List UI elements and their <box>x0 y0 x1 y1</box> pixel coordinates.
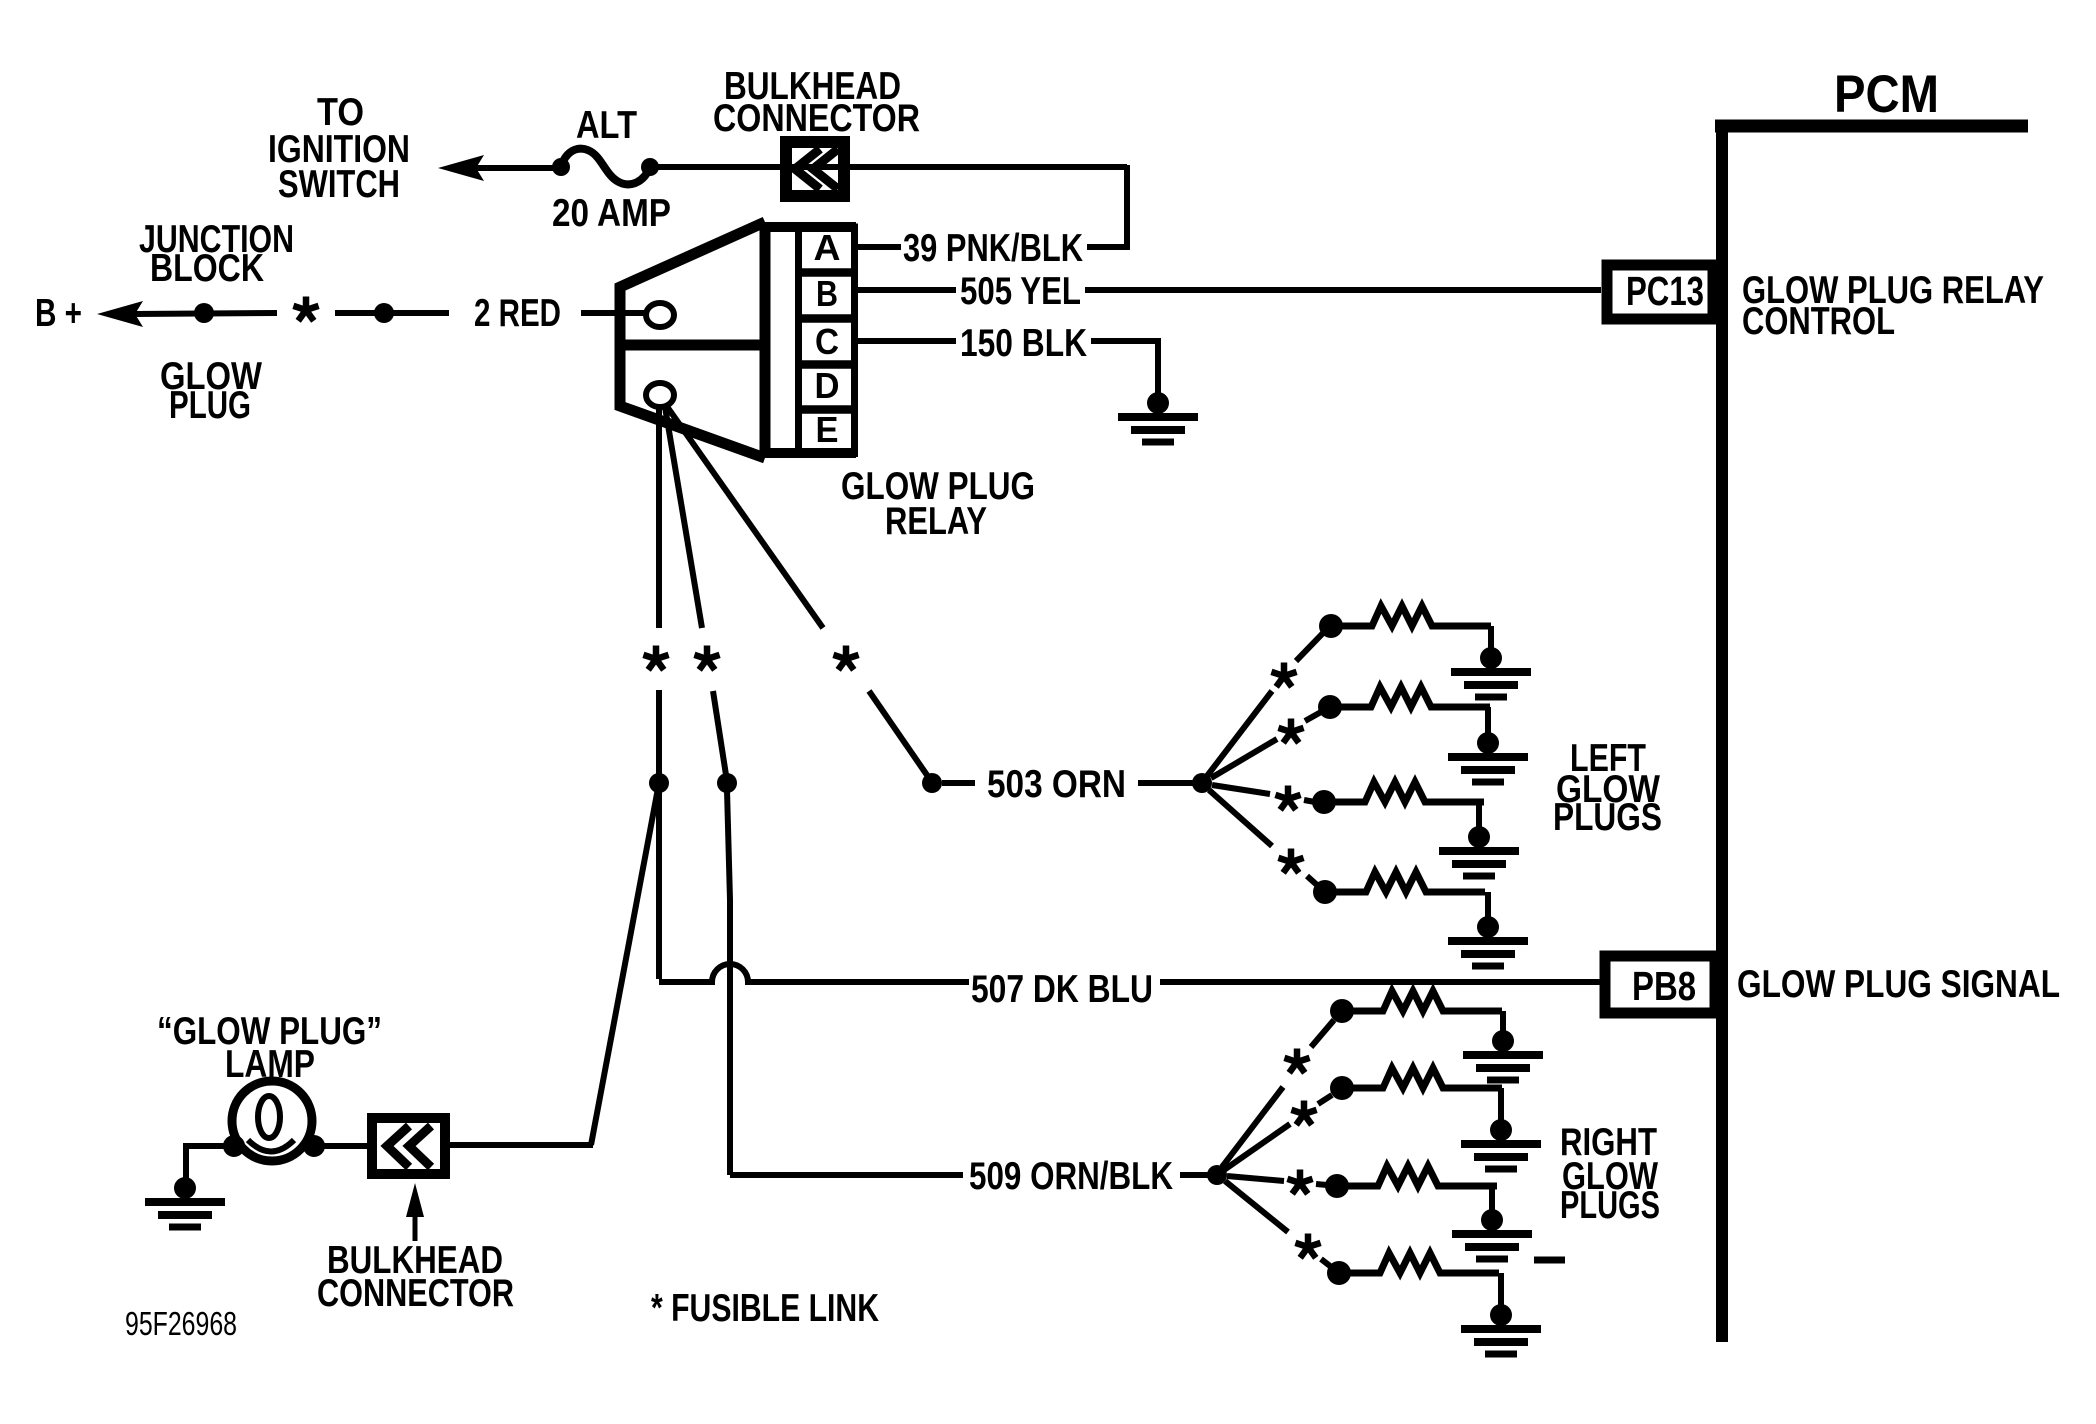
ground right plug 2 <box>1461 1119 1541 1169</box>
ground (lamp) <box>145 1177 225 1227</box>
wire fuse to bulkhead connector <box>650 164 813 170</box>
svg-text:D: D <box>815 365 840 406</box>
svg-text:PLUGS: PLUGS <box>1553 796 1662 839</box>
relay pin housing <box>798 227 855 454</box>
svg-text:509 ORN/BLK: 509 ORN/BLK <box>969 1155 1173 1198</box>
wire to right plug 3 dot <box>1316 1184 1327 1185</box>
right glow plug 1 <box>1330 991 1502 1023</box>
wire 503 ORN left segment <box>942 780 975 786</box>
label GLOW PLUG RELAY CONTROL <box>1742 269 2044 343</box>
fusible link asterisk 3 <box>833 646 858 670</box>
wire to 2 RED <box>335 310 449 316</box>
wire 505 YEL to PC13 <box>1085 287 1601 293</box>
svg-text:150 BLK: 150 BLK <box>960 322 1087 365</box>
junction dot on B+ wire <box>194 303 214 323</box>
wire arrow to fuse <box>474 165 562 171</box>
wire bulkhead connector to corner <box>813 164 1127 170</box>
fusible link asterisk right 3 <box>1287 1170 1312 1194</box>
wire hub to right plug 4 <box>1225 1181 1288 1232</box>
wire left plug 3 to ground <box>1476 802 1482 829</box>
ground right plug 4 <box>1461 1304 1541 1354</box>
svg-text:ALT: ALT <box>576 104 637 147</box>
svg-text:A: A <box>814 227 841 268</box>
terminal PC13 <box>1607 265 1713 319</box>
glow plug lamp <box>223 1081 325 1161</box>
wire 509 label to hub <box>1180 1172 1209 1178</box>
wire asterisk 2 to junction <box>713 691 726 775</box>
wire junction 1 diagonal to lamp circuit <box>591 783 659 1145</box>
relay terminal lower oval <box>646 383 674 407</box>
svg-text:C: C <box>815 321 839 362</box>
left glow plug 3 <box>1312 782 1484 814</box>
svg-text:507 DK BLU: 507 DK BLU <box>971 968 1153 1011</box>
wire left plug 2 to ground <box>1485 707 1491 735</box>
svg-text:PLUGS: PLUGS <box>1560 1184 1660 1227</box>
wire hub to left plug 3 <box>1212 785 1270 794</box>
left glow plug 4 <box>1313 872 1485 904</box>
stray dash right plug 3 <box>1534 1257 1565 1264</box>
ground left plug 4 <box>1448 916 1528 966</box>
wire lamp to bulkhead connector <box>314 1143 372 1149</box>
left glow plug 1 <box>1319 606 1491 638</box>
wire asterisk 3 to junction <box>869 691 929 778</box>
fusible link asterisk left 1 <box>1271 663 1296 687</box>
label BULKHEAD CONNECTOR (top) <box>713 65 920 140</box>
wire 507 DK BLU to PB8 <box>1160 979 1605 985</box>
svg-text:2 RED: 2 RED <box>474 292 561 335</box>
wire to left plug 1 dot <box>1296 632 1324 661</box>
fuse ALT 20 AMP <box>552 149 659 185</box>
wire B+ arrow segment <box>133 313 277 314</box>
fusible link asterisk right 2 <box>1291 1101 1316 1125</box>
ground (150 BLK) <box>1118 392 1198 442</box>
PCM box outline <box>1715 120 2028 1342</box>
wire to right plug 2 dot <box>1318 1095 1332 1104</box>
wire hub to left plug 1 <box>1207 691 1272 776</box>
right glow plug 2 <box>1330 1068 1502 1100</box>
junction dot before 2 RED <box>374 303 394 323</box>
wire relay lower terminal branch 1 <box>656 407 662 628</box>
right glow plug 4 <box>1327 1253 1499 1285</box>
relay terminal upper oval <box>646 303 674 327</box>
label GLOW PLUG RELAY <box>841 465 1035 543</box>
svg-text:39 PNK/BLK: 39 PNK/BLK <box>903 227 1083 270</box>
junction node dot 1 <box>649 773 669 793</box>
arrow to ignition switch <box>438 155 484 181</box>
wire pin B <box>856 287 956 293</box>
wire to right plug 4 dot <box>1321 1259 1330 1266</box>
svg-text:B: B <box>816 273 838 314</box>
svg-text:BLOCK: BLOCK <box>150 247 264 290</box>
svg-text:* FUSIBLE LINK: * FUSIBLE LINK <box>651 1287 879 1330</box>
wire left plug 1 to ground <box>1488 626 1494 650</box>
svg-text:B +: B + <box>35 292 82 335</box>
fusible link asterisk left 4 <box>1278 849 1303 873</box>
wire junction 2 down to 509 corner <box>727 790 730 1175</box>
label "GLOW PLUG" LAMP <box>157 1010 382 1086</box>
junction node dot 3 <box>922 773 942 793</box>
svg-text:PCM: PCM <box>1834 65 1939 124</box>
junction node dot 2 <box>717 773 737 793</box>
glow plug relay body <box>620 222 856 458</box>
wire junction 1 down to 507 corner <box>656 790 662 979</box>
wire left plug 4 to ground <box>1485 892 1491 919</box>
svg-text:PC13: PC13 <box>1626 268 1704 314</box>
terminal PB8 <box>1605 956 1715 1013</box>
wire hub to right plug 3 <box>1227 1176 1284 1181</box>
label LEFT GLOW PLUGS <box>1553 737 1662 839</box>
wire hub to left plug 2 <box>1211 739 1277 778</box>
wire hub to right plug 2 <box>1224 1124 1290 1170</box>
junction hub right glow plugs <box>1207 1165 1227 1185</box>
wire hub to right plug 1 <box>1222 1087 1283 1167</box>
wire relay lower terminal branch 2 <box>665 407 702 628</box>
svg-text:503 ORN: 503 ORN <box>987 763 1126 806</box>
ground left plug 3 <box>1439 826 1519 876</box>
wire to left plug 2 dot <box>1305 712 1321 721</box>
wire 503 ORN right segment <box>1138 780 1194 786</box>
label RIGHT GLOW PLUGS <box>1560 1121 1660 1227</box>
wire relay lower terminal branch 3 <box>668 408 823 628</box>
svg-text:SWITCH: SWITCH <box>278 163 400 206</box>
junction hub left glow plugs <box>1192 773 1212 793</box>
svg-text:E: E <box>816 409 839 450</box>
fusible link asterisk left 2 <box>1278 719 1303 743</box>
svg-text:PB8: PB8 <box>1632 963 1696 1009</box>
label JUNCTION BLOCK <box>139 218 294 290</box>
wire to left plug 3 dot <box>1304 800 1315 802</box>
svg-text:CONNECTOR: CONNECTOR <box>713 97 920 140</box>
wire 150 BLK to ground <box>1091 341 1158 394</box>
fusible link asterisk right 4 <box>1295 1234 1320 1258</box>
svg-text:20 AMP: 20 AMP <box>552 192 671 235</box>
svg-text:505 YEL: 505 YEL <box>960 270 1081 313</box>
bulkhead connector (bottom) <box>372 1118 445 1174</box>
wire hub to left plug 4 <box>1209 790 1272 846</box>
wire right plug 1 to ground <box>1500 1011 1506 1033</box>
wire right plug 2 to ground <box>1498 1088 1504 1122</box>
svg-text:GLOW PLUG SIGNAL: GLOW PLUG SIGNAL <box>1737 963 2060 1006</box>
fusible link asterisk 2 <box>694 646 719 670</box>
wire 509 corner to label <box>730 1172 963 1178</box>
left glow plug 2 <box>1318 687 1490 719</box>
wire 507 DK BLU with hop over vertical wire <box>659 964 969 982</box>
svg-text:CONNECTOR: CONNECTOR <box>317 1272 514 1315</box>
wire pin C <box>856 338 956 344</box>
wire to left plug 4 dot <box>1307 876 1317 885</box>
wire right plug 4 to ground <box>1498 1273 1504 1307</box>
label GLOW PLUG (junction block) <box>160 355 262 427</box>
label TO IGNITION SWITCH <box>268 91 410 206</box>
right glow plug 3 <box>1325 1166 1497 1198</box>
wire 2 RED to relay terminal <box>581 310 648 316</box>
svg-text:CONTROL: CONTROL <box>1742 300 1895 343</box>
wire corner down to 39 PNK/BLK <box>1087 165 1127 247</box>
ground left plug 2 <box>1448 732 1528 782</box>
bulkhead connector (top) <box>786 142 844 196</box>
wire pin A <box>856 244 901 250</box>
ground left plug 1 <box>1451 647 1531 697</box>
svg-text:RELAY: RELAY <box>885 500 987 543</box>
wire asterisk 1 to junction <box>656 690 662 775</box>
label BULKHEAD CONNECTOR (bottom) <box>317 1239 514 1315</box>
ground right plug 1 <box>1463 1030 1543 1080</box>
fusible link asterisk left 3 <box>1275 786 1300 810</box>
wire to right plug 1 dot <box>1311 1020 1334 1047</box>
arrow to bulkhead connector <box>406 1183 424 1241</box>
wire lamp connector to diagonal <box>449 1142 593 1148</box>
fusible link asterisk (B+ wire) <box>293 297 318 321</box>
fusible link asterisk right 1 <box>1284 1049 1309 1073</box>
fusible link asterisk 1 <box>643 646 668 670</box>
svg-text:PLUG: PLUG <box>169 384 251 427</box>
svg-text:95F26968: 95F26968 <box>125 1305 237 1342</box>
wire right plug 3 to ground <box>1489 1186 1495 1212</box>
arrow to B+ <box>97 301 143 327</box>
wire lamp to ground <box>186 1146 234 1180</box>
ground right plug 3 <box>1452 1209 1532 1259</box>
